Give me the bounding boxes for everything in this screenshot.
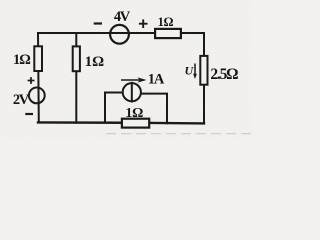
resistor R1 1ohm left: [34, 46, 42, 71]
svg-text:2V: 2V: [13, 92, 30, 108]
voltage source 4V: [110, 25, 129, 44]
current source 1A: [123, 82, 141, 103]
wire bottom: [38, 122, 204, 123]
svg-text:1Ω: 1Ω: [125, 106, 143, 121]
voltage arrow U (down): [193, 64, 197, 80]
wire current-source right vertical: [142, 94, 167, 124]
minus sign of 4V: [94, 22, 102, 24]
svg-text:1Ω: 1Ω: [13, 52, 30, 68]
plus sign of 4V: [139, 19, 148, 28]
resistor R3 1ohm top: [155, 29, 181, 38]
resistor R5 1ohm bottom: [122, 119, 149, 128]
resistor R2 1ohm middle: [73, 46, 80, 71]
wire right branch: [203, 33, 205, 123]
wire top: [38, 32, 204, 34]
svg-text:1Ω: 1Ω: [158, 15, 174, 29]
svg-text:2.5Ω: 2.5Ω: [210, 66, 238, 83]
minus sign of 2V: [25, 113, 33, 115]
svg-text:4V: 4V: [114, 9, 131, 25]
wire current-source left vertical: [105, 93, 122, 123]
resistor R4 2.5ohm right: [200, 56, 207, 85]
voltage source 2V: [29, 88, 45, 104]
svg-text:1A: 1A: [148, 72, 165, 88]
wire middle branch: [75, 33, 77, 123]
plus sign of 2V: [28, 77, 35, 84]
current arrow 1A: [121, 77, 147, 82]
svg-text:1Ω: 1Ω: [85, 54, 105, 70]
svg-text:U: U: [185, 64, 195, 78]
wire left branch: [37, 33, 40, 123]
